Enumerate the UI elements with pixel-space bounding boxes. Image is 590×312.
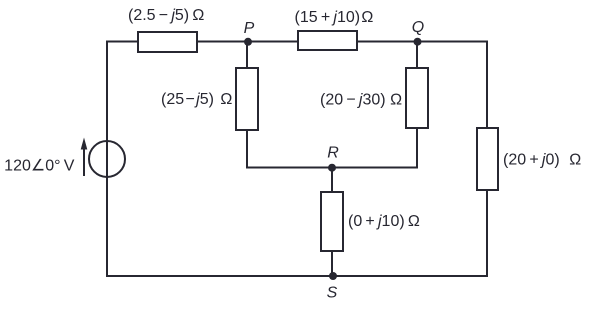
svg-text:(2.5 − j5) Ω: (2.5 − j5) Ω (128, 7, 204, 24)
wire: right vertical upper segment (486, 41, 488, 129)
wire: resistor bottom down to node S (331, 251, 333, 276)
node Q junction dot (414, 38, 422, 46)
wire: node R down to resistor (331, 168, 333, 193)
wire: bottom rail (106, 275, 488, 277)
resistor (20 + j0) ohm body (477, 128, 498, 190)
wire: resistor bottom down to middle rail (416, 128, 418, 169)
svg-text:(20 − j30) Ω: (20 − j30) Ω (320, 92, 402, 109)
wire: node P down to resistor (246, 42, 248, 69)
svg-text:120∠0° V: 120∠0° V (4, 157, 75, 174)
node R junction dot (328, 164, 336, 172)
resistor (15 + j10) ohm body (298, 31, 357, 50)
node S junction dot (329, 272, 337, 280)
svg-text:S: S (327, 285, 338, 302)
resistor (25 - j5) ohm body (236, 68, 258, 130)
resistor (0 + j10) ohm body (321, 192, 343, 251)
wire: resistor bottom down to middle rail (246, 130, 248, 169)
wire: left vertical branch through source (106, 42, 108, 277)
voltage source V1 circle (89, 141, 125, 177)
svg-text:P: P (244, 20, 255, 37)
wire: node Q down to resistor (416, 42, 418, 69)
voltage source polarity arrow (83, 145, 85, 176)
wire: top-left segment (106, 41, 138, 43)
svg-text:(20 + j0) Ω: (20 + j0) Ω (503, 152, 581, 169)
wire: right vertical lower segment (486, 190, 488, 277)
svg-text:(15 + j10) Ω: (15 + j10) Ω (295, 9, 374, 26)
svg-text:(0 + j10) Ω: (0 + j10) Ω (348, 213, 420, 230)
wire: middle rail P-branch to Q-branch through node R (246, 167, 418, 169)
svg-text:Q: Q (412, 19, 424, 36)
node P junction dot (244, 38, 252, 46)
resistor (2.5 - j5) ohm body (138, 32, 197, 52)
svg-text:R: R (327, 145, 339, 162)
wire: top segment from R1 to node P and on to node Q and right corner (197, 41, 488, 43)
resistor (20 - j30) ohm body (406, 68, 428, 128)
svg-text:(25 − j5) Ω: (25 − j5) Ω (161, 91, 232, 108)
